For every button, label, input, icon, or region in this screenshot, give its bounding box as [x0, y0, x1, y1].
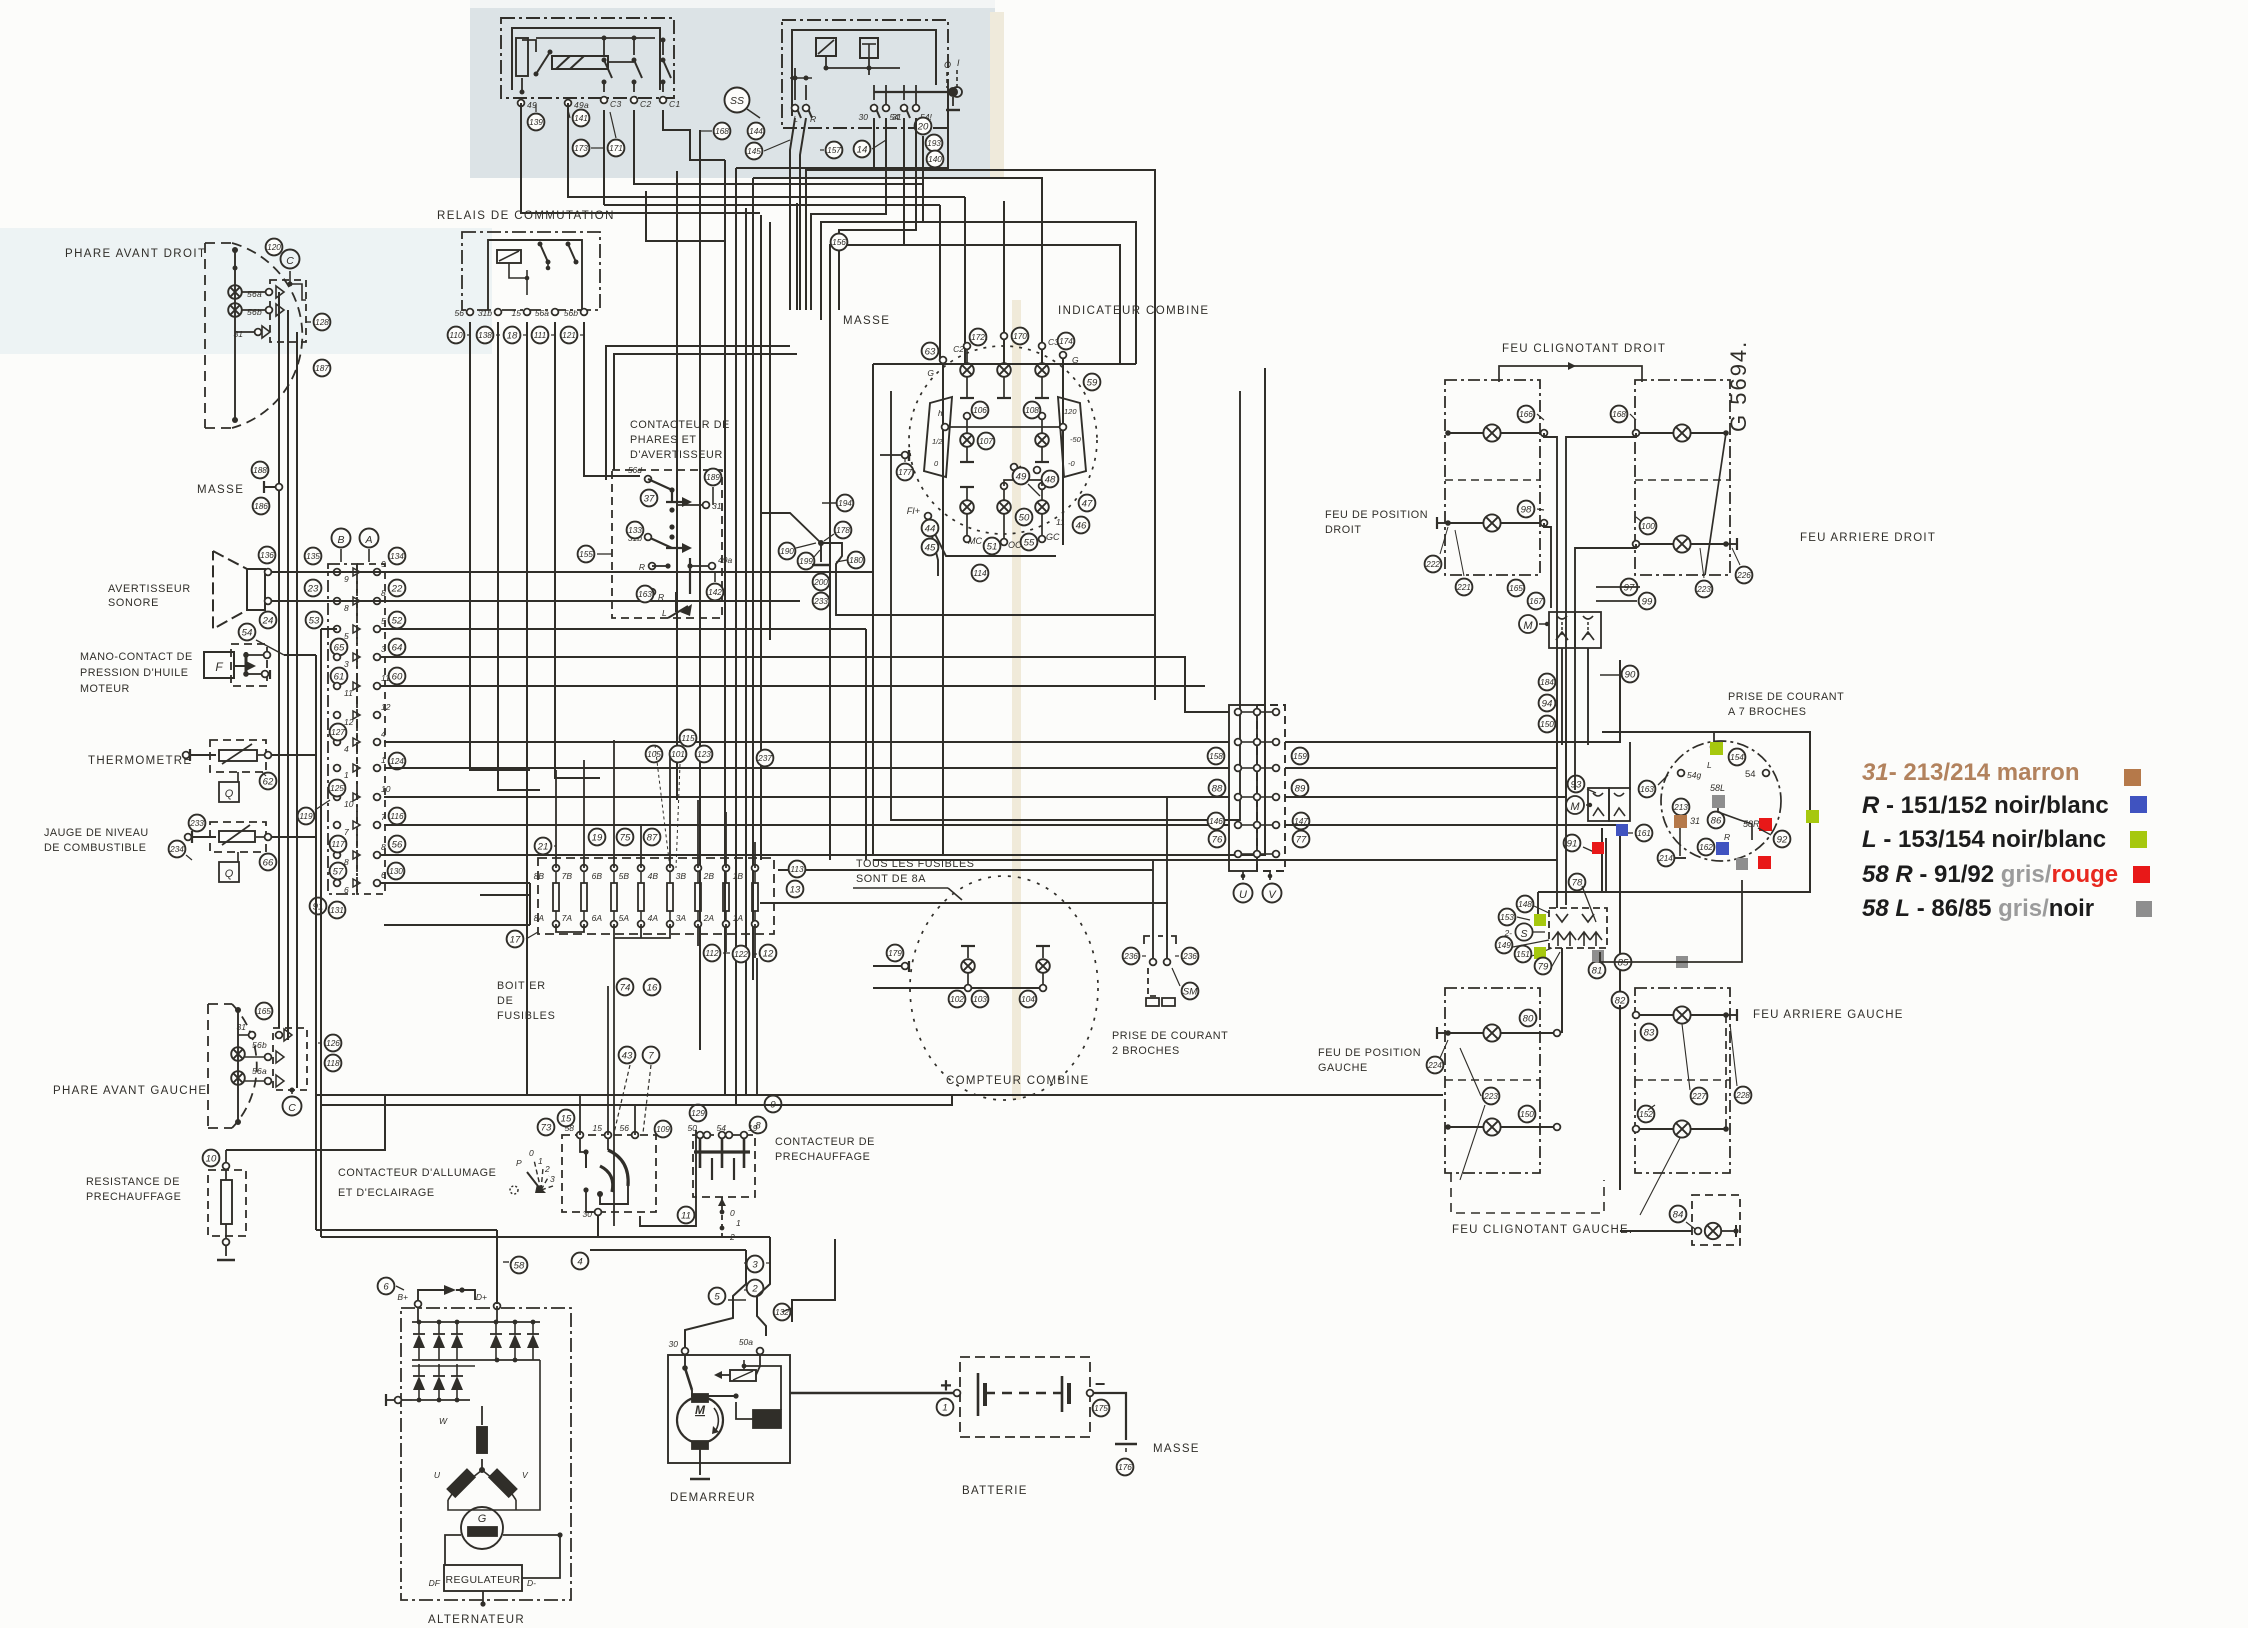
- svg-text:53: 53: [309, 615, 320, 626]
- wire web stair3: [806, 170, 1155, 700]
- label circle 109: [655, 1121, 672, 1138]
- svg-text:AVERTISSEUR: AVERTISSEUR: [108, 583, 191, 595]
- ignition key switch: [580, 1139, 586, 1152]
- commutation contact 2: [568, 244, 576, 262]
- prechauffage arrow: [721, 1197, 723, 1240]
- M connector right: [1519, 615, 1537, 633]
- svg-text:L: L: [662, 608, 667, 618]
- svg-text:GC: GC: [1046, 532, 1060, 542]
- wire fpd down1: [1544, 433, 1557, 612]
- phares sw t1: [645, 476, 652, 483]
- lamp 56a right: [228, 285, 242, 299]
- hazard contacts 30 31: [873, 85, 875, 100]
- svg-text:84: 84: [1673, 1209, 1684, 1220]
- sq grey mid: [1736, 858, 1748, 870]
- label circle 44: [922, 520, 939, 537]
- fag link: [1725, 1015, 1727, 1129]
- prise2 socket: [1144, 936, 1150, 944]
- label circle 50: [1016, 509, 1033, 526]
- svg-text:PRISE DE COURANT: PRISE DE COURANT: [1728, 691, 1844, 703]
- label circle 142: [707, 584, 724, 601]
- wire fcd 97: [1575, 586, 1620, 588]
- legend square grey: [2136, 901, 2152, 917]
- svg-text:63: 63: [925, 346, 936, 357]
- wire 178 node: [818, 540, 824, 546]
- label circle 221 r: [1456, 579, 1473, 596]
- svg-text:140: 140: [928, 154, 942, 164]
- svg-text:122: 122: [734, 949, 748, 959]
- svg-text:11: 11: [1056, 517, 1065, 527]
- wire 49 down: [521, 103, 760, 213]
- svg-text:PRECHAUFFAGE: PRECHAUFFAGE: [86, 1191, 181, 1203]
- label circle 18: [504, 327, 521, 344]
- label circle 1: [937, 1399, 954, 1416]
- alt mid bus: [412, 1359, 540, 1361]
- alt V winding: [489, 1469, 517, 1497]
- svg-text:11: 11: [681, 1210, 691, 1221]
- label circle 66: [260, 854, 277, 871]
- sq grey S: [1592, 950, 1604, 962]
- svg-text:46: 46: [1076, 520, 1087, 531]
- horn terminals: [265, 569, 272, 576]
- svg-text:6: 6: [383, 1281, 389, 1292]
- svg-text:127: 127: [331, 727, 345, 737]
- mano box: [231, 644, 267, 686]
- wire bus low2: [321, 1095, 952, 1105]
- svg-text:G 5694.: G 5694.: [1726, 340, 1751, 432]
- indicateur outer box: [873, 364, 1265, 855]
- wire bus low4: [226, 1095, 385, 1150]
- svg-text:5: 5: [381, 616, 386, 626]
- prise2 wires: [1152, 860, 1154, 958]
- commutation contact 1: [540, 244, 548, 262]
- svg-text:103: 103: [973, 994, 987, 1004]
- label circle 233: [189, 815, 206, 832]
- label circle 223 g: [1483, 1088, 1500, 1105]
- svg-text:6B: 6B: [592, 871, 603, 881]
- label circle 46: [1073, 517, 1090, 534]
- label circle 226 r: [1736, 567, 1753, 584]
- svg-text:24: 24: [262, 615, 274, 626]
- flasher contact C3: [603, 40, 605, 55]
- headlamp left filament wire: [237, 1010, 239, 1122]
- starter motor: [677, 1397, 723, 1443]
- svg-text:L: L: [1707, 760, 1712, 770]
- lamp 56a left: [231, 1071, 245, 1085]
- battery terminal minus: [1087, 1390, 1094, 1397]
- svg-text:165: 165: [257, 1006, 271, 1016]
- fcg dash bracket: [1451, 1173, 1604, 1213]
- wire bottom h3: [590, 1249, 746, 1251]
- wire mid conn right D: [1285, 825, 1620, 1005]
- label circle 53: [306, 612, 323, 629]
- wire 4 h: [728, 1299, 746, 1301]
- label circle 151 s2: [1515, 946, 1532, 963]
- wire 141-49a: [568, 110, 570, 118]
- label circle 88: [1209, 780, 1226, 797]
- label circle 188: [252, 462, 269, 479]
- label circle 145: [746, 143, 763, 160]
- label circle 90 m: [1622, 666, 1639, 683]
- thermo box: [210, 740, 266, 772]
- alt G machine: [461, 1507, 503, 1549]
- prise7 wire 58L: [1718, 808, 1752, 840]
- terminal 31 right: [255, 329, 262, 336]
- label circle 100 r: [1640, 518, 1657, 535]
- alt G leads: [445, 1535, 461, 1565]
- svg-text:214: 214: [1658, 853, 1673, 863]
- wire mid h2: [778, 869, 1153, 871]
- svg-text:7: 7: [381, 812, 386, 822]
- svg-text:0: 0: [529, 1148, 534, 1158]
- svg-text:19: 19: [592, 832, 603, 843]
- wire 132 v: [782, 1308, 792, 1312]
- label circle 79 s2: [1535, 958, 1552, 975]
- svg-text:237: 237: [757, 753, 772, 763]
- svg-text:45: 45: [925, 542, 936, 553]
- label circle 57: [330, 863, 347, 880]
- wire phare right down2: [287, 310, 289, 1040]
- wire 43 dash: [614, 1065, 630, 1133]
- mid connector top pair: [1237, 708, 1239, 712]
- headlamp right filament wire: [234, 250, 236, 420]
- label circle 55: [1021, 534, 1038, 551]
- indicateur circle: [909, 346, 1097, 534]
- label circle 60: [389, 668, 406, 685]
- svg-text:−: −: [1095, 1374, 1106, 1394]
- ignition terminals: [577, 1132, 584, 1139]
- svg-text:1: 1: [736, 1218, 741, 1228]
- wire 119 line: [315, 800, 330, 810]
- label circle 43: [619, 1047, 636, 1064]
- svg-text:22: 22: [391, 583, 403, 594]
- svg-text:D-: D-: [527, 1578, 536, 1588]
- svg-text:61: 61: [334, 671, 345, 682]
- svg-text:R: R: [639, 562, 645, 572]
- svg-text:173: 173: [574, 143, 588, 153]
- wire fcd down1: [1566, 433, 1636, 612]
- label circle 63: [922, 343, 939, 360]
- ind lamp C3: [1035, 363, 1049, 377]
- wire 171-C3: [610, 112, 616, 138]
- ind FI terminal: [925, 513, 932, 520]
- flasher contact C1: [662, 40, 664, 55]
- svg-text:167: 167: [1529, 596, 1543, 606]
- terminal C1: [660, 97, 667, 104]
- svg-text:M: M: [1523, 620, 1533, 632]
- svg-text:12: 12: [381, 702, 391, 712]
- connector strip terminals: [334, 569, 341, 576]
- prechauffage bars: [699, 1139, 702, 1168]
- hazard contacts 54: [903, 85, 905, 100]
- starter internal wires: [744, 1366, 781, 1410]
- label circle 133: [627, 522, 644, 539]
- phares sw arm2: [648, 537, 672, 548]
- label circle 14: [854, 141, 871, 158]
- S plug symbols: [1556, 914, 1568, 922]
- wire ign feed 58: [579, 1095, 581, 1135]
- label circle 104: [1020, 991, 1037, 1008]
- label circle 74: [617, 979, 634, 996]
- svg-text:134: 134: [390, 551, 404, 561]
- wire bus low3: [384, 1059, 620, 1061]
- svg-text:178: 178: [836, 525, 850, 535]
- svg-text:10: 10: [344, 799, 354, 809]
- wire 20 down: [821, 136, 923, 320]
- wire 3 2 feeds: [744, 1262, 746, 1264]
- label circle 135: [305, 548, 322, 565]
- label circle 73: [538, 1119, 555, 1136]
- wire mid conn right B2: [1285, 700, 1557, 768]
- svg-text:JAUGE DE NIVEAU: JAUGE DE NIVEAU: [44, 827, 149, 839]
- label circle 170: [1012, 328, 1029, 345]
- wire 145: [764, 140, 790, 151]
- label circle 119: [298, 808, 315, 825]
- svg-text:18: 18: [507, 330, 518, 341]
- svg-text:CONTACTEUR D'ALLUMAGE: CONTACTEUR D'ALLUMAGE: [338, 1167, 496, 1179]
- wire row7: [381, 825, 700, 827]
- sq green S2: [1534, 947, 1546, 959]
- hazard mid wires: [794, 68, 796, 85]
- wire right v D: [1583, 648, 1585, 908]
- wire left v4: [315, 655, 317, 1230]
- svg-text:56b: 56b: [252, 1040, 267, 1050]
- svg-text:13: 13: [790, 884, 801, 895]
- wire mid conn right A: [1285, 660, 1620, 742]
- svg-text:R: R: [1724, 832, 1730, 842]
- label circle 82 s2: [1612, 992, 1629, 1009]
- sq brown 31: [1674, 815, 1687, 828]
- svg-text:B+: B+: [397, 1292, 408, 1302]
- terminal 49a: [565, 100, 572, 107]
- prise7 54g pin: [1678, 770, 1685, 777]
- svg-text:233: 233: [189, 818, 204, 828]
- svg-text:56a: 56a: [247, 289, 262, 299]
- ind lamp bl: [960, 500, 974, 514]
- wire web h4: [736, 92, 948, 168]
- fag inner dash: [1635, 1079, 1730, 1081]
- svg-text:2: 2: [544, 1164, 550, 1174]
- phares sw 49a terminal: [709, 563, 716, 570]
- svg-text:98: 98: [1521, 504, 1532, 515]
- label circle 173: [573, 140, 590, 157]
- label circle 10: [203, 1150, 220, 1167]
- svg-text:62: 62: [263, 776, 274, 787]
- wire trunk2: [811, 118, 886, 310]
- svg-text:1: 1: [381, 755, 386, 765]
- fcd lamp2: [1673, 535, 1690, 552]
- svg-text:O: O: [944, 60, 951, 70]
- svg-text:PRISE DE COURANT: PRISE DE COURANT: [1112, 1030, 1228, 1042]
- svg-text:128: 128: [315, 317, 329, 327]
- thermo resistor: [219, 750, 257, 761]
- wire S down1: [1561, 948, 1563, 1033]
- svg-text:213: 213: [1673, 802, 1688, 812]
- wire horn row9: [271, 571, 873, 573]
- label circle 126b: [325, 1035, 342, 1052]
- label circle 84: [1670, 1206, 1687, 1223]
- hazard relay 1: [816, 38, 836, 56]
- wire battery minus cable: [1094, 1393, 1126, 1440]
- svg-text:DEMARREUR: DEMARREUR: [670, 1492, 756, 1504]
- label circle 175: [1093, 1400, 1110, 1417]
- svg-text:FUSIBLES: FUSIBLES: [497, 1010, 556, 1022]
- svg-text:20: 20: [917, 121, 929, 132]
- phares switch box: [612, 470, 722, 618]
- label circle 161 s: [1636, 825, 1653, 842]
- svg-text:56b: 56b: [564, 308, 578, 318]
- label circle 178 b: [835, 522, 852, 539]
- svg-text:119: 119: [299, 811, 313, 821]
- svg-text:C2: C2: [640, 99, 651, 109]
- label circle 49: [1013, 468, 1030, 485]
- svg-text:6: 6: [344, 885, 349, 895]
- svg-text:1/2: 1/2: [932, 437, 943, 446]
- wire ign 30 down: [597, 1216, 599, 1237]
- wire web v2: [735, 168, 737, 1105]
- sq red 58R: [1759, 818, 1772, 831]
- fag lamp1: [1673, 1006, 1690, 1023]
- svg-text:7: 7: [344, 827, 349, 837]
- label circle 158: [1208, 748, 1225, 765]
- wire fcd mid: [1575, 544, 1636, 612]
- svg-text:-50: -50: [1070, 435, 1082, 444]
- label circle 45: [922, 539, 939, 556]
- svg-text:Q: Q: [225, 868, 234, 880]
- sq grey long wire: [1676, 956, 1688, 968]
- label circle 118: [325, 1055, 342, 1072]
- svg-text:A 7 BROCHES: A 7 BROCHES: [1728, 706, 1807, 718]
- svg-text:54: 54: [717, 1123, 727, 1133]
- node C left: [283, 1097, 302, 1116]
- svg-text:S: S: [1520, 928, 1527, 940]
- svg-text:R - 151/152 noir/blanc: R - 151/152 noir/blanc: [1862, 792, 2109, 819]
- svg-text:175: 175: [1094, 1403, 1108, 1413]
- hazard contacts L R: [794, 85, 796, 100]
- alt diodes row2: [413, 1376, 425, 1390]
- wire mid conn right C: [1285, 700, 1566, 797]
- label circle 159: [1292, 748, 1309, 765]
- label circle 155: [578, 546, 595, 563]
- label circle 237: [757, 750, 774, 767]
- svg-text:31: 31: [1690, 816, 1700, 826]
- ind lamp mid-right: [1035, 433, 1049, 447]
- label circle 193: [926, 135, 943, 152]
- svg-text:C: C: [288, 1102, 296, 1114]
- svg-text:54g: 54g: [1687, 770, 1701, 780]
- svg-text:PRECHAUFFAGE: PRECHAUFFAGE: [775, 1151, 870, 1163]
- svg-text:30: 30: [669, 1339, 679, 1349]
- phares sw t31: [703, 502, 710, 509]
- ind lamp br: [1035, 500, 1049, 514]
- label circle 110: [448, 327, 465, 344]
- label circle 6 line: [396, 1286, 404, 1290]
- svg-text:89: 89: [1295, 783, 1306, 794]
- commutation relay box: [462, 232, 600, 310]
- alternator box: [401, 1308, 571, 1600]
- svg-text:8: 8: [381, 842, 386, 852]
- label circle 85 s2: [1615, 954, 1632, 971]
- label circle 168 r: [1611, 406, 1628, 423]
- commutation inner frame: [488, 240, 582, 310]
- svg-text:110: 110: [449, 330, 463, 340]
- legend square green: [2130, 831, 2147, 848]
- label circle 139: [528, 114, 545, 131]
- label circle 99 r: [1639, 593, 1656, 610]
- svg-text:116: 116: [390, 811, 404, 821]
- label circle SM: [1182, 983, 1199, 1000]
- svg-text:112: 112: [705, 948, 719, 958]
- feu position droit box: [1445, 380, 1540, 575]
- svg-text:PHARE AVANT DROIT: PHARE AVANT DROIT: [65, 248, 206, 260]
- sq green right: [1806, 810, 1819, 823]
- svg-text:L - 153/154 noir/blanc: L - 153/154 noir/blanc: [1862, 826, 2106, 853]
- label circle 80 g: [1520, 1010, 1537, 1027]
- commutation terminals: [467, 309, 474, 316]
- svg-text:37: 37: [644, 493, 655, 504]
- wire 110 tick: [467, 334, 471, 336]
- mano arrow: [234, 665, 252, 667]
- svg-text:165: 165: [1509, 583, 1523, 593]
- svg-text:56b: 56b: [247, 307, 262, 317]
- svg-text:88: 88: [1212, 783, 1223, 794]
- ind G right: [1060, 352, 1067, 359]
- headlamp right connector box: [270, 280, 306, 342]
- svg-text:31- 213/214 marron: 31- 213/214 marron: [1862, 759, 2079, 786]
- wire phares box v1: [622, 370, 725, 470]
- svg-text:49a: 49a: [574, 100, 589, 110]
- svg-text:6: 6: [381, 870, 386, 880]
- label circle 134: [389, 548, 406, 565]
- battery dash link: [985, 1392, 1062, 1394]
- svg-text:MASSE: MASSE: [197, 484, 244, 496]
- svg-text:76: 76: [1212, 834, 1223, 845]
- phares sw R terminal: [649, 563, 656, 570]
- label circle 194 b: [837, 495, 854, 512]
- svg-text:85: 85: [1618, 957, 1629, 968]
- wire fpd down2: [1544, 523, 1551, 608]
- svg-text:152: 152: [1639, 1109, 1653, 1119]
- fpg lamp2: [1483, 1118, 1500, 1135]
- svg-text:79: 79: [1538, 961, 1549, 972]
- wire long grey: [1600, 880, 1742, 962]
- svg-text:141: 141: [574, 113, 588, 123]
- label circle 21: [535, 838, 552, 855]
- terminal 31 left: [249, 1032, 256, 1039]
- regulator leads: [522, 1535, 560, 1578]
- wire 189 drop: [712, 487, 714, 505]
- wire bus low to fpg: [1443, 1095, 1448, 1127]
- label circle 233 b: [813, 593, 830, 610]
- svg-text:171: 171: [609, 143, 623, 153]
- svg-text:31: 31: [237, 1022, 247, 1032]
- label circle 75: [617, 829, 634, 846]
- feu arriere gauche box: [1635, 988, 1730, 1173]
- label circle 129: [690, 1105, 707, 1122]
- wire row8b: [381, 854, 873, 856]
- label circle 20: [915, 118, 932, 135]
- jauge resistor: [219, 831, 255, 842]
- label circle 92 s: [1774, 831, 1791, 848]
- wire trunk4: [839, 118, 916, 310]
- wire ign right jog: [656, 1150, 676, 1240]
- svg-text:65: 65: [334, 642, 345, 653]
- svg-text:139: 139: [529, 117, 543, 127]
- wire fpg v1: [1561, 948, 1563, 1033]
- wire C3 down: [603, 110, 605, 205]
- svg-text:120: 120: [1064, 407, 1077, 416]
- M2 plugs: [1593, 793, 1603, 796]
